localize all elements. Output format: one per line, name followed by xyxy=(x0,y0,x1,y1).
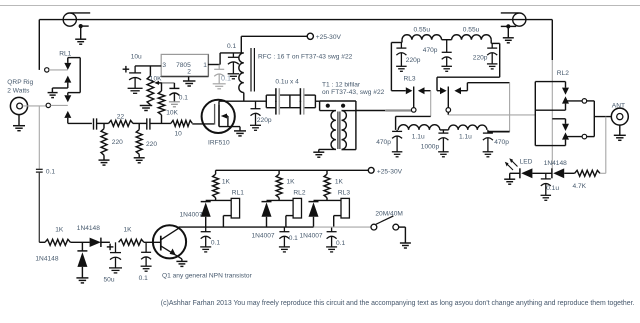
label 1K (sense b) xyxy=(124,227,133,234)
label 0.1 (7805 out) xyxy=(221,73,231,82)
svg-text:470p: 470p xyxy=(494,139,509,146)
wire pot top xyxy=(149,66,151,76)
wire 10K to gate node xyxy=(161,115,163,124)
svg-text:RL3: RL3 xyxy=(338,190,350,197)
wire 7805 pin1 xyxy=(208,53,220,65)
capacitor C2 (coupling) xyxy=(147,118,150,129)
label RL3 (coil) xyxy=(338,190,350,197)
diode 1N4148 (series) xyxy=(90,238,101,247)
wire base node xyxy=(144,241,161,243)
wire diode to rail (RL2 driver) xyxy=(266,217,268,227)
svg-text:on FT37-43, swg #22: on FT37-43, swg #22 xyxy=(322,89,385,96)
svg-text:50u: 50u xyxy=(104,277,115,284)
capacitor 470p (LPF1 mid) xyxy=(441,40,452,72)
ground J1 xyxy=(75,26,86,44)
capacitor 0.1 (7805 out bypass, grey) xyxy=(213,65,226,89)
svg-text:0.1: 0.1 xyxy=(139,275,148,282)
label 0.1u x 4 xyxy=(275,78,299,85)
relay RL1 contact 2 NO arrow xyxy=(64,111,71,124)
wire RL3 throw1a xyxy=(391,90,405,92)
svg-text:1N4007: 1N4007 xyxy=(300,232,323,239)
label 220p (LPF1 right) xyxy=(473,54,488,61)
label RL1 (coil) xyxy=(232,190,244,197)
svg-text:470p: 470p xyxy=(423,47,438,54)
svg-text:10: 10 xyxy=(175,130,183,137)
label IRF510 xyxy=(208,139,230,146)
svg-text:RL1: RL1 xyxy=(59,50,71,57)
ground 220 shunt2 xyxy=(134,158,145,163)
ground shunt diode xyxy=(76,278,88,283)
wire LPF2 mid xyxy=(440,129,449,131)
relay RL2 terminal 1 xyxy=(582,99,587,104)
connector J1 (keying jack, top left) xyxy=(63,13,90,26)
label 1K (RL2 driver) xyxy=(287,179,296,186)
label LED xyxy=(520,159,533,166)
relay RL3 terminal 2 xyxy=(446,108,451,113)
svg-text:1000p: 1000p xyxy=(421,143,440,150)
label 220 (2) xyxy=(146,141,157,148)
resistor 1K (RL1 driver) xyxy=(213,170,219,200)
svg-text:0.55u: 0.55u xyxy=(414,27,431,34)
wire right bus drop xyxy=(551,20,553,169)
wire 7805 pin3 xyxy=(135,65,161,67)
svg-text:20M/40M: 20M/40M xyxy=(375,211,403,218)
svg-text:0.1: 0.1 xyxy=(289,235,298,242)
capacitor 0.1 (RF sense, series) xyxy=(36,169,43,172)
wire RL2 common xyxy=(587,101,595,137)
svg-text:22: 22 xyxy=(117,114,125,121)
relay RL2 pole2 xyxy=(566,136,583,138)
diode 1N4148 (shunt) xyxy=(77,242,87,267)
label RL1 xyxy=(59,50,71,57)
label QRP Rig xyxy=(7,79,33,86)
svg-text:220: 220 xyxy=(112,139,123,146)
svg-text:(c)Ashhar Farhan 2013: (c)Ashhar Farhan 2013 You may freely rep… xyxy=(161,300,635,307)
svg-text:1K: 1K xyxy=(124,227,133,234)
capacitor bank 0.1u x 4 xyxy=(266,88,315,114)
diode 1N4007 (RL2 driver) xyxy=(262,202,272,217)
capacitor 0.1 (base) xyxy=(141,242,152,271)
wire left bus corner xyxy=(38,20,40,70)
resistor 1K (RL2 driver) xyxy=(276,170,282,200)
relay coil RL1 xyxy=(231,198,239,218)
label 0.1 (RL1 driver) xyxy=(211,240,220,247)
capacitor 0.1 (supply bypass) xyxy=(228,53,240,79)
wire RL1 NO to ground xyxy=(52,88,67,93)
wire RL1 pole2 xyxy=(51,104,68,106)
svg-text:2 Watts: 2 Watts xyxy=(7,87,30,94)
label 0.1 (RL2 driver) xyxy=(289,235,298,242)
wire SW1 to gnd xyxy=(399,227,406,243)
svg-text:ANT: ANT xyxy=(612,102,625,109)
label +25-30V (driver) xyxy=(377,168,403,175)
capacitor 50u xyxy=(109,242,122,273)
capacitor 0.1 (wiper bypass) xyxy=(169,83,180,107)
LED rays xyxy=(505,158,518,170)
label 0.55u (1) xyxy=(414,27,431,34)
ground 220 shunt1 xyxy=(99,160,110,165)
T1 core xyxy=(338,112,340,150)
relay RL1 contact 1 NO arrow xyxy=(64,76,71,88)
wire T1 output xyxy=(356,110,412,112)
capacitor 220p (LPF1 right) xyxy=(487,43,498,69)
svg-text:1.1u: 1.1u xyxy=(459,134,472,141)
label 1K (RL3 driver) xyxy=(335,179,344,186)
ground J3 xyxy=(13,115,25,131)
svg-text:0.1u: 0.1u xyxy=(546,185,559,192)
T1 polarity dot B xyxy=(341,104,345,108)
resistor 220 (input shunt 1) xyxy=(101,123,107,160)
svg-text:IRF510: IRF510 xyxy=(208,139,230,146)
ground J4 xyxy=(614,125,626,140)
wire input cap to R22 xyxy=(97,122,109,124)
svg-text:10K: 10K xyxy=(150,75,162,82)
svg-text:2: 2 xyxy=(187,68,191,75)
relay RL2 contact2 NC arrow xyxy=(552,119,569,131)
svg-text:220p: 220p xyxy=(406,57,421,64)
terminal +25-30V (driver) xyxy=(368,167,374,173)
wire RL1 contact bar xyxy=(68,58,80,93)
ground LED xyxy=(504,179,515,184)
switch SW1 lever xyxy=(376,216,394,224)
wire shunt diode gnd xyxy=(81,267,83,278)
label 220p (drain) xyxy=(257,117,272,124)
label 1N4148 (series) xyxy=(77,225,100,232)
T1 primary winding xyxy=(319,111,336,150)
label RL3 xyxy=(404,75,416,82)
wire node (RL1 driver) xyxy=(206,199,232,201)
relay RL3 contact1 arrow a xyxy=(406,87,413,94)
svg-text:1N4007: 1N4007 xyxy=(180,211,203,218)
svg-text:1K: 1K xyxy=(55,227,64,234)
wire diode to rail (RL3 driver) xyxy=(313,217,315,227)
label 1K (RL1 driver) xyxy=(222,179,231,186)
wire sense to 1K xyxy=(39,241,45,243)
core RFC xyxy=(251,48,254,92)
wire R22 to node xyxy=(133,122,147,124)
label 20M/40M xyxy=(375,211,403,218)
junction dot J1 sleeve xyxy=(79,24,83,28)
svg-text:QRP Rig: QRP Rig xyxy=(7,79,33,86)
connector J2 (keying jack, top right) xyxy=(501,13,526,27)
wire LPF1 left xyxy=(391,40,402,43)
svg-text:1N4148: 1N4148 xyxy=(544,160,567,167)
connector J3 QRP rig input xyxy=(10,97,27,114)
capacitor 220p (LPF1 left) xyxy=(396,43,407,72)
capacitor 0.1 (RL3 driver) xyxy=(326,227,337,252)
wire RL1 pole1 xyxy=(49,69,68,71)
wire LPF2 left xyxy=(396,116,431,129)
relay RL1 contact 2 arrow xyxy=(64,93,71,103)
svg-text:RL2: RL2 xyxy=(557,70,569,77)
svg-text:1N4148: 1N4148 xyxy=(77,225,100,232)
wire LPF1 right xyxy=(437,40,500,77)
relay RL3 terminal 1 xyxy=(411,108,416,113)
label + (10u polarity) xyxy=(123,66,130,73)
relay RL3 contact2 arrow a xyxy=(440,87,447,94)
ground Q1 emitter xyxy=(176,261,187,266)
svg-text:220p: 220p xyxy=(473,54,488,61)
label RL2 xyxy=(557,70,569,77)
label 22 xyxy=(117,114,125,121)
resistor 22 xyxy=(109,120,134,126)
relay RL1 terminal 2 xyxy=(46,103,50,107)
label 0.1u (LED) xyxy=(546,185,559,192)
capacitor 470p (LPF2 left) xyxy=(392,130,403,157)
label RFC xyxy=(258,53,353,60)
svg-text:1K: 1K xyxy=(222,179,231,186)
wire to antenna xyxy=(594,116,611,118)
relay RL2 contact1 NO arrow xyxy=(535,96,569,110)
wire RF sense drop xyxy=(38,106,40,169)
svg-text:+25-30V: +25-30V xyxy=(316,34,342,41)
svg-text:RL1: RL1 xyxy=(232,190,244,197)
svg-text:0.1u x 4: 0.1u x 4 xyxy=(275,78,299,85)
wire 4.7K to diode xyxy=(564,172,574,174)
terminal +25-30V (top) xyxy=(307,33,313,39)
ground pot xyxy=(140,105,153,111)
resistor 4.7K xyxy=(575,170,600,176)
label 220 (1) xyxy=(112,139,123,146)
label 470p (LPF2 right) xyxy=(494,139,509,146)
label 10u xyxy=(131,53,142,60)
wire series diode out xyxy=(101,241,110,243)
label 4.7K xyxy=(573,183,587,190)
wire RL3 throw2a xyxy=(437,77,440,91)
diode 1N4007 (RL1 driver) xyxy=(201,202,211,217)
diode 1N4007 (RL3 driver) xyxy=(309,202,319,217)
svg-text:T1 : 12 bifilar: T1 : 12 bifilar xyxy=(322,82,361,89)
ground SW1 xyxy=(400,243,411,248)
svg-text:0.1: 0.1 xyxy=(211,240,220,247)
label 1N4007 (RL3 driver) xyxy=(300,232,323,239)
wire LED to gnd xyxy=(510,173,520,179)
svg-text:4.7K: 4.7K xyxy=(573,183,587,190)
voltage regulator U1 7805 xyxy=(161,54,208,76)
wire LPF1 mid xyxy=(442,39,452,41)
label 1.1u (1) xyxy=(412,134,425,141)
svg-text:0.1: 0.1 xyxy=(46,168,55,175)
svg-text:Q1 any general NPN transistor: Q1 any general NPN transistor xyxy=(162,273,253,280)
wire +25-30V feed xyxy=(220,36,307,53)
label 1000p xyxy=(421,143,440,150)
ground IRF510 source xyxy=(234,131,246,136)
wire LED node xyxy=(532,172,552,174)
junction dot J2 sleeve xyxy=(506,24,510,28)
wire diode to rail (RL1 driver) xyxy=(205,217,207,227)
inductor 1.1u (2) xyxy=(449,125,487,130)
label 0.1 (RL3 driver) xyxy=(336,240,345,247)
relay RL2 terminal 2 xyxy=(582,134,587,139)
transistor Q2 IRF510 xyxy=(202,100,240,133)
svg-text:0.1: 0.1 xyxy=(227,43,236,50)
label 2 Watts xyxy=(7,87,30,94)
label Q1 xyxy=(162,273,253,280)
label 10K (gate bias) xyxy=(166,110,178,117)
svg-text:LED: LED xyxy=(520,159,533,166)
relay RL2 contact1 NC arrow xyxy=(562,82,569,95)
svg-text:0.55u: 0.55u xyxy=(463,27,480,34)
ground 7805 xyxy=(183,81,196,86)
svg-text:1: 1 xyxy=(203,62,207,69)
svg-text:1K: 1K xyxy=(287,179,296,186)
label 1N4148 (shunt) xyxy=(35,255,58,262)
wire driver common xyxy=(179,226,371,228)
resistor 10 (gate) xyxy=(171,120,192,126)
capacitor 1000p (LPF2) xyxy=(438,130,449,157)
inductor 1.1u (1) xyxy=(398,125,440,130)
svg-text:RL2: RL2 xyxy=(293,190,305,197)
svg-text:RL3: RL3 xyxy=(404,75,416,82)
label 0.55u (2) xyxy=(463,27,480,34)
wire 10K drop xyxy=(161,83,163,91)
inductor RFC xyxy=(239,53,244,101)
relay coil RL2 xyxy=(293,198,301,218)
resistor 1K (sense a) xyxy=(45,239,70,245)
wire RL3 throw1b xyxy=(425,91,431,117)
relay RL3 pole1 bar xyxy=(413,87,415,108)
inductor 0.55u (1) xyxy=(402,35,442,40)
wire bank exit xyxy=(315,100,319,102)
relay RL3 contact1 arrow b xyxy=(418,87,425,94)
svg-text:10u: 10u xyxy=(131,53,142,60)
label +25-30V (top) xyxy=(316,34,342,41)
wire coil return (RL2 driver) xyxy=(286,216,293,228)
capacitor 0.1 (RL1 driver) xyxy=(200,227,211,252)
T1 polarity dot A xyxy=(326,104,330,108)
wire top bus xyxy=(39,19,552,21)
capacitor C-in (coupling) xyxy=(94,118,97,129)
ground RL1 NO xyxy=(48,93,58,98)
wire node (RL2 driver) xyxy=(267,199,294,201)
wire drain line xyxy=(219,100,266,102)
label 0.1 (RF sense) xyxy=(46,168,55,175)
label T1 line1 xyxy=(322,82,361,89)
wire J3 to RL1 xyxy=(23,105,46,107)
wire driver rail xyxy=(216,169,369,171)
capacitor 470p (LPF2 right) xyxy=(483,130,494,157)
label 1K (sense a) xyxy=(55,227,64,234)
label ANT xyxy=(612,102,625,109)
label 0.1 (supply bypass) xyxy=(227,43,236,50)
label 0.1 (wiper bypass) xyxy=(179,95,188,102)
wire sense node a xyxy=(70,241,89,243)
ground T1 xyxy=(313,149,324,157)
switch SW1 terminal 2 xyxy=(393,224,399,230)
svg-text:470p: 470p xyxy=(376,139,391,146)
wire gate node xyxy=(150,122,171,124)
wire RL3 pole2 to RL2 xyxy=(448,112,535,115)
capacitor 220p (drain) xyxy=(250,101,261,130)
transformer T1 frame xyxy=(320,101,356,150)
pot wiper arrow xyxy=(154,81,174,85)
inductor 0.55u (2) xyxy=(452,35,492,40)
svg-text:0.1: 0.1 xyxy=(221,73,231,82)
wire LPF2 right riser xyxy=(488,83,510,132)
relay coil RL3 xyxy=(341,198,349,218)
potentiometer 10K xyxy=(147,76,154,105)
wire RL3 throw2b xyxy=(461,83,510,91)
wire Q1 emitter gnd xyxy=(181,259,183,262)
caption text xyxy=(161,300,635,307)
svg-text:RFC : 16 T on FT37-43 swg #22: RFC : 16 T on FT37-43 swg #22 xyxy=(258,53,353,60)
relay RL2 frame xyxy=(535,82,565,146)
svg-text:220: 220 xyxy=(146,141,157,148)
resistor 1K (RL3 driver) xyxy=(324,170,330,200)
label + (50u) xyxy=(107,244,114,251)
wire coil return (RL3 driver) xyxy=(334,216,341,228)
svg-text:+25-30V: +25-30V xyxy=(377,168,403,175)
wire RF sense drop lower xyxy=(38,172,40,242)
label 1N4007 (RL1 driver) xyxy=(180,211,203,218)
label 220p (LPF1 left) xyxy=(406,57,421,64)
wire gate lead xyxy=(192,123,214,125)
label 470p (LPF1) xyxy=(423,47,438,54)
wire coil return (RL1 driver) xyxy=(223,216,231,228)
resistor 220 (input shunt 2) xyxy=(136,123,142,157)
relay RL3 pole2 bar xyxy=(447,87,449,108)
wire IRF510 source to gnd xyxy=(239,127,241,131)
svg-text:1N4148: 1N4148 xyxy=(35,255,58,262)
label 1N4148 (LED feed) xyxy=(544,160,567,167)
label T1 line2 xyxy=(322,89,385,96)
switch SW1 terminal 1 xyxy=(371,224,377,230)
svg-text:1N4007: 1N4007 xyxy=(252,232,275,239)
svg-text:1K: 1K xyxy=(335,179,344,186)
label 50u xyxy=(104,277,115,284)
svg-text:3: 3 xyxy=(162,62,166,69)
resistor 10K (gate bias) xyxy=(158,91,165,115)
wire 4.7K riser xyxy=(600,117,606,174)
relay RL2 pole1 xyxy=(566,100,583,102)
wire node (RL3 driver) xyxy=(314,199,342,201)
relay RL1 contact 1 NC arrow xyxy=(64,58,71,70)
resistor 1K (sense b) xyxy=(119,239,144,245)
label 1.1u (2) xyxy=(459,134,472,141)
diode 1N4148 (LED feed) xyxy=(552,168,564,178)
wire RL1 to input cap xyxy=(68,122,92,124)
svg-text:1.1u: 1.1u xyxy=(412,134,425,141)
svg-text:220p: 220p xyxy=(257,117,272,124)
label 470p (LPF2 left) xyxy=(376,139,391,146)
T1 secondary winding xyxy=(342,111,356,150)
svg-text:0.1: 0.1 xyxy=(179,95,188,102)
capacitor 0.1u (LED) xyxy=(541,173,552,200)
svg-text:0.1: 0.1 xyxy=(336,240,345,247)
relay RL3 contact2 arrow b xyxy=(454,87,461,94)
capacitor 0.1 (RL2 driver) xyxy=(279,227,290,252)
label 0.1 (base) xyxy=(139,275,148,282)
LED D-led xyxy=(520,168,533,178)
wire LPF1 left drop xyxy=(390,43,392,91)
wire 7805 pin2 xyxy=(188,77,190,82)
relay RL2 contact2 NO arrow xyxy=(535,132,569,145)
label 1N4007 (RL2 driver) xyxy=(252,232,275,239)
label 10K (pot) xyxy=(150,75,162,82)
capacitor 10u xyxy=(128,66,143,93)
label RL2 (coil) xyxy=(293,190,305,197)
connector J4 ANT xyxy=(611,108,628,125)
transistor Q1 xyxy=(153,225,186,259)
relay RL1 terminal 1 xyxy=(45,68,49,72)
ground J2 xyxy=(503,26,514,42)
label 10 xyxy=(175,130,183,137)
svg-text:10K: 10K xyxy=(166,110,178,117)
